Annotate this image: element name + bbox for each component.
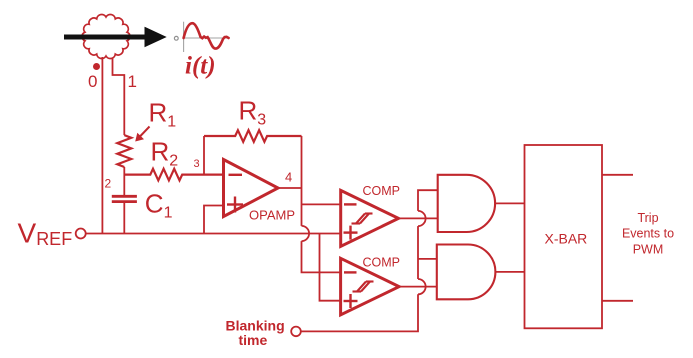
svg-text:4: 4 (285, 170, 292, 185)
svg-text:R1: R1 (149, 98, 177, 131)
wire: branch to AND2 top input (418, 258, 437, 260)
wire: output riser down with hop over rail (301, 188, 303, 226)
svg-text:OPAMP: OPAMP (249, 208, 295, 223)
svg-text:COMP: COMP (363, 256, 401, 270)
wire: trip output bottom (602, 300, 633, 302)
svg-text:R3: R3 (239, 96, 267, 129)
polarity dot (93, 63, 100, 70)
resistor R2 (horizontal) (124, 169, 223, 181)
svg-text:1: 1 (128, 72, 137, 91)
wire: COMP1 output to AND1 (399, 217, 438, 219)
wire: node 3 feedback riser (203, 136, 205, 175)
COMP1 minus (344, 203, 357, 205)
wire: AND2 output to X-BAR (495, 271, 524, 273)
R1 pointer arrow (135, 127, 149, 142)
svg-text:0: 0 (88, 72, 97, 91)
wire: rail branch to COMP2 plus (320, 234, 341, 301)
wire hop over COMP2 output (418, 279, 426, 294)
svg-text:3: 3 (194, 158, 200, 170)
resistor R1 (vertical) (117, 135, 131, 167)
op-amp minus (229, 174, 243, 176)
primary current arrow (black) (64, 28, 166, 47)
COMP2 plus (344, 294, 358, 308)
COMP1 plus (344, 226, 358, 240)
wire: CT terminal 1 jog down to R1 (113, 58, 125, 135)
wire: trip output top (602, 174, 633, 176)
wire: opamp + input branch (204, 206, 224, 234)
COMP2 minus (344, 271, 357, 273)
svg-text:Trip: Trip (637, 211, 658, 225)
resistor R3 (horizontal feedback) (204, 130, 302, 142)
X-BAR block (525, 145, 603, 328)
svg-text:i(t): i(t) (185, 53, 216, 80)
wire: blanking run (301, 294, 418, 331)
wire: blanking riser top to AND1 (418, 190, 438, 211)
svg-text:VREF: VREF (18, 218, 73, 249)
op-amp U1 (224, 160, 279, 217)
wire hop over COMP1 output (418, 211, 426, 226)
svg-text:C1: C1 (145, 189, 173, 222)
comparator COMP1 (341, 190, 399, 246)
capacitor C1 (112, 196, 137, 201)
current transformer CT1 (scalloped coil) (82, 14, 130, 58)
wire hop over VREF rail (302, 226, 310, 241)
wire: VREF rail (86, 233, 341, 235)
sine plot origin marker (174, 36, 178, 40)
comparator COMP2 (341, 258, 400, 315)
svg-text:2: 2 (105, 177, 112, 191)
sine plot axes (183, 22, 229, 52)
wire: feedback down to output (301, 136, 303, 188)
wire: blanking riser mid (417, 226, 419, 279)
current waveform i(t) (184, 23, 229, 48)
wire: COMP2 output to AND2 (399, 286, 437, 288)
AND gate A1 (438, 175, 495, 232)
VREF terminal (76, 229, 86, 239)
svg-text:COMP: COMP (363, 184, 401, 198)
svg-text:PWM: PWM (633, 242, 664, 256)
op-amp plus (227, 197, 243, 213)
wire: branch to COMP1 minus (302, 203, 341, 205)
wire: AND1 output to X-BAR (495, 202, 524, 204)
wire: C1 to rail (123, 202, 125, 234)
svg-text:R2: R2 (151, 137, 179, 170)
svg-text:Events to: Events to (622, 227, 674, 241)
COMP2 hysteresis symbol (353, 282, 374, 292)
svg-text:X-BAR: X-BAR (545, 231, 588, 247)
AND gate A2 (437, 245, 496, 300)
svg-text:time: time (239, 332, 268, 348)
wire: CT terminal 0 down to VREF rail (101, 57, 103, 234)
blanking terminal (291, 327, 301, 337)
wire: R1 bottom to node 2 / C1 (123, 167, 125, 196)
wire: opamp output (278, 187, 302, 189)
COMP1 hysteresis symbol (352, 214, 373, 224)
